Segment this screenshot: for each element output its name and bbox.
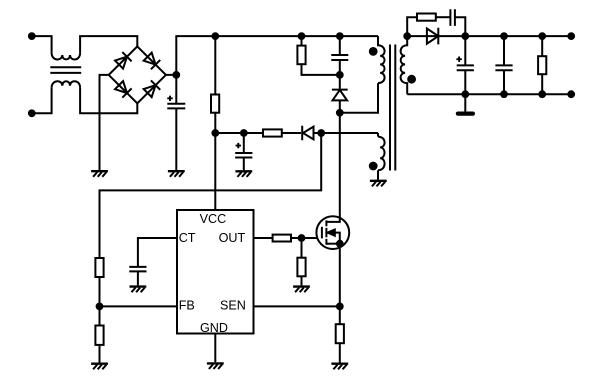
ground aux winding — [370, 181, 387, 187]
diode D7 clamp (points up) — [332, 90, 348, 101]
transistor Q1 substrate arrow wire — [326, 233, 339, 244]
wire OUT pin to gate resistor — [254, 237, 273, 239]
diode D4 bridge bottom-right — [143, 80, 160, 97]
ground IC GND — [207, 363, 224, 369]
polarity dot primary — [370, 48, 377, 55]
wire aux winding to ground — [377, 170, 379, 180]
node aux winding junction — [318, 130, 324, 136]
wire R4 to ground — [301, 276, 303, 285]
wire D5 to aux node — [313, 132, 378, 134]
svg-text:VCC: VCC — [200, 212, 227, 226]
wire R5 to ground — [339, 343, 341, 362]
wire aux winding top — [377, 133, 379, 137]
wire primary bottom — [340, 83, 378, 113]
IC U1 PWM controller box — [177, 210, 254, 334]
resistor R10 clamp snubber — [297, 46, 305, 65]
node AC input top terminal — [29, 33, 35, 39]
node VCC rail junction — [212, 130, 218, 136]
wire AC top to choke — [32, 36, 52, 53]
transformer T1 aux winding — [378, 137, 385, 171]
wire gate resistor to MOSFET gate — [291, 237, 322, 239]
capacitor C7 CT timing — [129, 267, 146, 286]
wire secondary top rail — [407, 35, 571, 37]
transistor Q1 arrow head — [328, 230, 335, 236]
ground sense resistor — [331, 364, 348, 370]
wire choke bottom to bridge bottom — [80, 88, 137, 114]
node HV rail / startup resistor — [212, 33, 218, 39]
inductor L1 bottom winding (common-mode choke) — [52, 81, 81, 88]
wire aux sense down-left to FB divider — [100, 133, 322, 258]
bridge rectifier diamond — [109, 46, 166, 103]
choke core — [50, 67, 81, 73]
wire R6 to FB node — [99, 277, 101, 306]
wire AC bottom to choke — [32, 88, 52, 114]
resistor R2 VCC series — [263, 129, 282, 136]
polarity plus C1 — [167, 96, 172, 101]
capacitor C1 bulk electrolytic — [167, 75, 185, 170]
ground output (bar) — [458, 111, 473, 115]
capacitor C5 snubber — [331, 36, 348, 75]
diode D3 bridge left-bottom — [114, 80, 131, 97]
node source/substrate junction — [337, 241, 343, 247]
svg-text:GND: GND — [200, 321, 228, 335]
polarity dot aux — [370, 163, 377, 170]
transformer T1 primary winding — [378, 36, 385, 83]
node snubber cap top — [337, 33, 343, 39]
wire clamp node to diode D7 — [339, 75, 341, 89]
wire rail to snubber resistor — [301, 36, 303, 46]
polarity plus C3 — [456, 57, 461, 62]
diode D2 bridge top-right — [143, 52, 160, 69]
node clamp junction — [337, 72, 343, 78]
node drain / primary bottom — [337, 110, 343, 116]
ground FB divider — [91, 364, 108, 370]
wire secondary bottom rail — [407, 93, 571, 95]
wire snubber resistor to clamp node — [302, 64, 340, 75]
polarity plus C2 — [236, 143, 241, 148]
node R9 top — [539, 33, 545, 39]
polarity dot secondary — [408, 76, 415, 83]
node gate junction — [299, 235, 305, 241]
node AC input bottom terminal — [29, 110, 35, 116]
diode D5 aux rectifier (points left) — [302, 126, 313, 140]
transformer T1 core — [390, 45, 395, 171]
resistor R1 startup — [211, 95, 219, 113]
resistor R4 gate pulldown — [301, 238, 303, 258]
transistor Q1 drain stub — [326, 113, 339, 222]
wire C6 to rail — [455, 17, 465, 36]
node output terminal plus — [568, 33, 574, 39]
ground CT cap — [130, 287, 147, 293]
capacitor C4 output ceramic — [495, 36, 512, 94]
capacitor C3 output electrolytic — [457, 36, 474, 94]
ground gate pulldown — [293, 287, 310, 293]
node SEN junction — [337, 304, 343, 310]
wire VCC down to IC — [214, 133, 216, 210]
wire bridge positive up to HV rail — [166, 36, 378, 75]
resistor R5 current sense — [339, 306, 341, 324]
resistor R3 gate — [273, 235, 291, 242]
wire D7 to drain node — [339, 100, 341, 112]
node VCC cap junction — [241, 130, 247, 136]
node output terminal minus — [568, 91, 574, 97]
node R9 bottom — [539, 91, 545, 97]
resistor R6 FB divider upper — [95, 258, 103, 277]
inductor L1 top winding (common-mode choke) — [52, 53, 81, 60]
wire SEN pin — [254, 305, 340, 307]
wire GND pin to ground — [214, 334, 216, 363]
wire output ground stem — [464, 94, 466, 112]
node C4 bottom — [501, 91, 507, 97]
svg-text:SEN: SEN — [220, 299, 246, 313]
node bridge positive junction — [173, 72, 179, 78]
capacitor C2 VCC electrolytic — [235, 133, 252, 170]
wire R7 to ground — [99, 345, 101, 363]
transistor Q1 source stub — [326, 243, 339, 245]
transistor Q1 gate bar — [321, 227, 323, 239]
wire source down to SEN node — [339, 244, 341, 307]
diode D6 output rectifier — [427, 28, 438, 45]
node snubber rail junction — [462, 33, 468, 39]
ground bulk cap — [168, 171, 185, 177]
resistor R9 load — [541, 36, 543, 94]
wire FB pin — [100, 305, 178, 307]
wire choke top to bridge top — [80, 36, 137, 53]
ground VCC cap — [235, 171, 252, 177]
wire startup resistor to VCC node — [214, 113, 216, 133]
svg-text:OUT: OUT — [219, 231, 246, 245]
transistor Q1 MOSFET circle — [316, 216, 349, 249]
wire snubber riser left — [407, 17, 417, 36]
wire R8 to C6 — [436, 16, 451, 18]
node C3 bottom junction — [462, 91, 468, 97]
wire CT pin to cap — [138, 238, 177, 267]
ground bridge negative — [91, 171, 108, 177]
wire rail to startup resistor — [214, 36, 216, 94]
node secondary top junction — [404, 33, 410, 39]
resistor R8 output snubber — [417, 14, 436, 21]
transistor Q1 channel segments — [325, 220, 327, 244]
capacitor C6 output snubber — [450, 9, 455, 26]
node clamp snubber rail junction — [299, 33, 305, 39]
wire bridge negative to ground — [100, 75, 109, 170]
node C4 top — [501, 33, 507, 39]
svg-text:CT: CT — [179, 231, 196, 245]
wire VCC rail segment — [215, 132, 263, 134]
svg-text:FB: FB — [179, 299, 195, 313]
wire R2 to diode D5 — [282, 132, 301, 134]
diode D1 bridge left-top — [114, 52, 131, 69]
transformer T1 secondary winding — [401, 36, 408, 94]
node FB junction — [97, 304, 103, 310]
resistor R7 FB divider lower — [99, 306, 101, 325]
